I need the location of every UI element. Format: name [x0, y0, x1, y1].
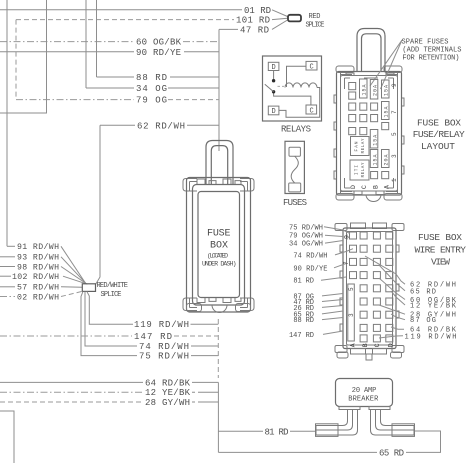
wire 75 RD/WH right [191, 355, 218, 357]
wire corner x46 [0, 0, 47, 113]
layout bottom foot left [336, 178, 354, 200]
wire 65 RD exit [379, 265, 405, 291]
fuse D1 [349, 83, 356, 90]
entry relay slot tall rect [348, 284, 355, 341]
svg-text:D: D [387, 343, 394, 347]
svg-text:1: 1 [391, 178, 398, 182]
wire 60 OG/BK exit [379, 278, 405, 300]
layout box tab top-left [336, 66, 354, 89]
svg-text:12 YE/BK: 12 YE/BK [145, 388, 191, 398]
wire 93 RD/WH to splice [61, 257, 86, 284]
wire 12 YE/BK right [192, 391, 218, 393]
wire 93 RD/WH stub [0, 256, 15, 258]
svg-text:90 RD/YE: 90 RD/YE [293, 265, 327, 273]
wire 34 OG vertical [85, 0, 87, 88]
svg-text:20A: 20A [384, 155, 390, 166]
fuse box U1 bottom edge details [197, 298, 241, 303]
wire 12 YE/BK left [0, 391, 143, 393]
wire 28 GY/WH right [192, 401, 218, 403]
svg-text:FUSES: FUSES [283, 198, 307, 208]
fuse box U1 label plate [198, 192, 240, 298]
fuse box U1 tab bottom-right [240, 298, 254, 311]
entry box notch right 1 [396, 245, 399, 252]
svg-text:15A: 15A [372, 135, 378, 146]
svg-text:FUSE/RELAY: FUSE/RELAY [413, 129, 465, 140]
wire 79 OG/WH entry [325, 235, 343, 236]
relay ITI [350, 160, 369, 180]
wire relay D to switch [273, 71, 275, 80]
wire 81 RD right [290, 430, 316, 432]
svg-text:15A: 15A [384, 85, 390, 96]
fuse box U1 handle outer [206, 141, 233, 185]
wire 26 RD entry [322, 306, 343, 308]
fuse box U1 bottom bump [212, 305, 227, 313]
wire 62 RD/WH vertical to splice [96, 125, 100, 284]
wire 81 RD left [218, 430, 263, 432]
svg-text:UNDER DASH): UNDER DASH) [202, 261, 237, 268]
svg-text:147 RD: 147 RD [134, 332, 172, 342]
svg-text:C: C [310, 108, 314, 116]
svg-text:57 RD/WH: 57 RD/WH [17, 283, 59, 293]
relay switch blade [265, 84, 274, 92]
entry grid [350, 232, 393, 342]
fuse D4 [349, 115, 356, 122]
entry box tab top-left [335, 224, 350, 241]
wire 90 RD/YE right [184, 51, 219, 53]
svg-text:79 OG: 79 OG [136, 96, 167, 106]
breaker right leg inner [381, 410, 415, 436]
svg-text:B: B [362, 343, 369, 347]
fuse 15A col A [382, 80, 390, 98]
wire 81 RD entry [321, 277, 346, 280]
fuse 15A col C [360, 79, 368, 98]
wire vertical x7 [6, 0, 8, 246]
fuse element s-curve [291, 156, 298, 183]
svg-text:98 RD/WH: 98 RD/WH [17, 262, 59, 272]
wire 87 OG exit [391, 314, 405, 320]
wire 90 RD/YE entry [334, 264, 346, 268]
wire 101 RD [16, 19, 234, 21]
svg-text:B: B [372, 185, 379, 189]
svg-text:SPARE FUSES: SPARE FUSES [402, 39, 449, 47]
svg-text:88 RD: 88 RD [136, 73, 167, 83]
entry box tab bottom-right [392, 346, 404, 353]
wire bundle dashed vertical [217, 319, 219, 378]
svg-text:74 RD/WH: 74 RD/WH [293, 252, 327, 260]
layout bottom foot right [384, 178, 402, 200]
svg-text:FUSE BOX: FUSE BOX [418, 232, 462, 243]
entry box foot bottom-left [337, 352, 348, 358]
wire bus to fuse box handle [218, 29, 220, 151]
fuse B7 [371, 172, 378, 179]
breaker left receptacle [316, 424, 339, 437]
entry box tab bottom-left [335, 346, 347, 353]
fuse terminal bottom [289, 183, 301, 192]
svg-text:75 RD/WH: 75 RD/WH [289, 224, 323, 232]
layout box notch left 4 [334, 171, 337, 179]
entry box bump top 1 [351, 223, 366, 229]
fuse box U1 bottom foot right [236, 304, 251, 312]
wire 65 RD to breaker [406, 431, 441, 452]
entry box notch left 2 [340, 271, 343, 278]
spare fuse pointer line 1 [370, 40, 402, 86]
wire 64 RD/BK exit [391, 327, 404, 329]
breaker left leg mid [316, 410, 353, 431]
wire 119 RD/WH right [191, 323, 219, 325]
wire 147 RD right [174, 335, 218, 337]
fuse D2 [349, 92, 356, 99]
svg-text:01 RD: 01 RD [244, 6, 271, 16]
entry box notch left 1 [340, 245, 343, 252]
wire 28 GY/WH exit [379, 305, 405, 314]
breaker left leg outer [316, 410, 358, 436]
wire 62 RD/WH exit [365, 256, 405, 284]
svg-text:BREAKER: BREAKER [348, 395, 379, 403]
svg-text:D: D [272, 108, 276, 116]
fuse C3 [360, 103, 367, 110]
wire 147 RD left [0, 335, 132, 337]
layout bottom bump [366, 195, 381, 202]
svg-text:3: 3 [391, 154, 398, 158]
layout box body outer [337, 72, 402, 196]
svg-text:74 RD/WH: 74 RD/WH [139, 342, 189, 352]
fuse box U1 body outer [187, 178, 251, 313]
wire splice to 75 RD/WH [81, 291, 137, 355]
wire 102 RD/WH to splice [63, 276, 87, 284]
entry box notch right 2 [396, 284, 399, 291]
relay coil [285, 83, 317, 88]
relay pin D top-left [268, 62, 279, 72]
svg-text:93 RD/WH: 93 RD/WH [17, 253, 59, 263]
wire 98 RD/WH stub [0, 266, 15, 268]
svg-text:90 RD/YE: 90 RD/YE [136, 48, 181, 58]
svg-text:20A: 20A [372, 85, 378, 96]
svg-text:FUSE BOX: FUSE BOX [417, 117, 461, 128]
fuse D5 [349, 128, 356, 135]
svg-text:81 RD: 81 RD [293, 278, 314, 286]
wire 74 RD/WH entry [335, 249, 353, 255]
layout box tab top-right [384, 66, 402, 89]
fuse A7 [382, 172, 389, 179]
entry box bottom center tab [366, 354, 372, 360]
svg-text:02 RD/WH: 02 RD/WH [17, 292, 59, 302]
svg-text:5: 5 [391, 132, 398, 136]
entry box bump bottom 2 [373, 349, 387, 355]
wire 47 RD entry [322, 300, 343, 302]
layout box body inner [341, 76, 398, 192]
svg-text:7: 7 [391, 110, 398, 114]
wire 02 RD/WH to splice [61, 291, 82, 296]
wire 88 RD right [170, 76, 219, 78]
svg-text:D: D [350, 185, 357, 189]
wire D bottom to coil right [279, 88, 320, 118]
svg-text:65 RD: 65 RD [379, 448, 404, 458]
wire 47 RD to splice [272, 20, 288, 29]
wire 65 RD bottom [218, 451, 377, 453]
svg-text:3: 3 [348, 313, 355, 317]
wire 87 OG entry [322, 294, 343, 296]
fuse 15A col A row3 [382, 102, 390, 120]
wire 88 RD vertical [96, 0, 98, 77]
relay pin D bottom-left [268, 106, 279, 116]
layout box handle inner [362, 34, 382, 72]
relay switch contact dot lower [272, 90, 275, 93]
breaker right leg outer [371, 410, 415, 436]
wire 34 OG left [86, 87, 134, 89]
wire 57 RD/WH to splice [61, 286, 82, 289]
svg-text:WIRE ENTRY: WIRE ENTRY [415, 244, 467, 255]
wire 60 OG/BK right [183, 41, 219, 43]
fuse 15A col B row6 [370, 150, 378, 168]
wire 101 RD to splice [272, 18, 288, 19]
fuse C5 [360, 128, 367, 135]
svg-text:(LOCATED: (LOCATED [207, 253, 228, 260]
svg-text:C: C [361, 185, 368, 189]
fuse box U1 top edge details [197, 179, 241, 184]
relay box [263, 56, 322, 121]
svg-text:28 GY/WH: 28 GY/WH [145, 398, 190, 408]
wire 62 RD/WH left [100, 124, 135, 126]
svg-text:75 RD/WH: 75 RD/WH [139, 352, 189, 362]
svg-text:119 RD/WH: 119 RD/WH [405, 333, 457, 341]
svg-text:9: 9 [391, 83, 398, 87]
svg-text:C: C [310, 64, 314, 72]
fuse C4 [360, 115, 367, 122]
fuse box U1 tab top-left [183, 179, 197, 192]
entry box bump top 2 [373, 223, 387, 229]
svg-text:VIEW: VIEW [431, 257, 450, 268]
svg-text:34 OG: 34 OG [136, 84, 167, 94]
svg-text:119 RD/WH: 119 RD/WH [134, 320, 189, 330]
layout box notch right 2 [401, 136, 404, 144]
fuse A5 [382, 123, 389, 130]
wire 91 RD/WH to splice [61, 246, 86, 283]
layout box notch left 3 [334, 149, 337, 157]
fuse D3 [349, 103, 356, 110]
fuse 15A col B row5 [370, 130, 378, 149]
entry box bump bottom 1 [351, 349, 366, 355]
spare fuse pointer line 2 [381, 40, 403, 89]
wire bus bottom vertical [217, 382, 219, 452]
svg-text:C: C [374, 343, 381, 347]
svg-text:147 RD: 147 RD [289, 332, 314, 340]
wire 79 OG left [16, 99, 134, 101]
wire 34 OG right [168, 87, 219, 89]
layout box notch left 2 [334, 122, 337, 130]
wire coil to C top [287, 66, 307, 87]
splice red [288, 15, 301, 22]
splice red/white [82, 284, 95, 292]
wire 119 RD/WH exit [379, 336, 403, 338]
entry box notch right 3 [396, 311, 399, 318]
fuse box U1 handle inner [211, 146, 227, 184]
entry box notch left 4 [340, 324, 343, 331]
layout box notch left 1 [334, 95, 337, 103]
wire 34 OG/WH entry [325, 241, 343, 244]
svg-text:15A: 15A [384, 107, 390, 118]
fuse B3 [371, 103, 378, 110]
wire splice to 119 RD/WH [87, 291, 133, 324]
fuse box U1 body mid [193, 185, 245, 306]
svg-text:102 RD/WH: 102 RD/WH [12, 272, 59, 282]
svg-text:RED/WHITE: RED/WHITE [97, 282, 129, 290]
fuse 20A col B [370, 80, 378, 100]
relay switch link dashed [278, 85, 285, 87]
wire vertical dashed x16 [15, 20, 17, 100]
svg-text:RELAYS: RELAYS [281, 124, 311, 134]
svg-text:FUSE: FUSE [207, 229, 231, 240]
wire 74 RD/WH right [191, 345, 218, 347]
svg-text:SPLICE: SPLICE [306, 21, 325, 29]
wire 98 RD/WH to splice [61, 267, 87, 285]
wire splice to 74 RD/WH [85, 291, 137, 346]
relay switch contact dot upper [272, 79, 275, 82]
wire 57 RD/WH stub [0, 286, 15, 288]
svg-text:91 RD/WH: 91 RD/WH [17, 242, 59, 252]
layout box top edge details [346, 73, 394, 78]
fuse terminal top [289, 147, 300, 156]
breaker base lip right [369, 407, 390, 410]
relay FAN [351, 137, 370, 156]
svg-text:15A: 15A [362, 85, 368, 96]
svg-text:ITI: ITI [355, 165, 360, 175]
wire bottom left corner [0, 411, 14, 463]
wire 28 GY/WH left [0, 401, 143, 403]
wire 90 RD/YE left [0, 51, 134, 53]
breaker right receptacle [392, 424, 415, 437]
svg-text:9: 9 [344, 235, 351, 239]
svg-text:101 RD: 101 RD [236, 16, 270, 26]
entry box foot bottom-right [391, 352, 402, 358]
wire 91 RD/WH stub [7, 245, 15, 247]
breaker left leg inner [316, 410, 348, 436]
fuse 20A col A row6 [382, 150, 390, 168]
fuse symbol body [285, 141, 304, 193]
wire 64 RD/BK left [0, 381, 143, 383]
svg-text:FOR RETENTION): FOR RETENTION) [402, 54, 459, 62]
svg-text:65 RD: 65 RD [410, 288, 436, 296]
wire 88 RD entry [322, 318, 343, 320]
svg-text:LAYOUT: LAYOUT [421, 141, 455, 152]
relay pin C bottom-right [306, 105, 317, 116]
svg-text:34 OG/WH: 34 OG/WH [289, 241, 323, 249]
wire 64 RD/BK right [192, 381, 218, 383]
fuse box U1 tab bottom-left [183, 298, 197, 311]
wire 01 RD [0, 9, 242, 11]
svg-text:79 OG/WH: 79 OG/WH [289, 233, 323, 241]
svg-text:20 AMP: 20 AMP [352, 387, 377, 395]
layout box handle outer [357, 29, 385, 72]
entry box body outer [343, 228, 396, 349]
fuse B4 [371, 115, 378, 122]
wire 79 OG right [168, 99, 219, 101]
wire 88 RD left [97, 76, 135, 78]
svg-text:RELAY: RELAY [361, 162, 366, 177]
fuse box U1 tab top-right [240, 179, 254, 192]
entry box tab top-right [389, 224, 404, 232]
entry box body inner [347, 232, 393, 346]
wire 60 OG/BK left [0, 41, 134, 43]
svg-text:BOX: BOX [210, 241, 228, 252]
wire 12 YE/BK exit [391, 291, 405, 305]
svg-text:87 OG: 87 OG [410, 317, 436, 325]
relay pin C top-right [306, 61, 317, 71]
wire 147 RD entry [323, 331, 343, 334]
svg-text:FAN: FAN [355, 141, 360, 151]
svg-text:88 RD: 88 RD [293, 317, 314, 325]
svg-text:81 RD: 81 RD [265, 427, 289, 437]
wire 47 RD [219, 28, 238, 30]
breaker body [336, 379, 393, 407]
svg-text:12 YE/BK: 12 YE/BK [410, 303, 457, 311]
breaker base lip left [339, 407, 360, 410]
wire 01 RD to splice [272, 10, 288, 17]
wire 62 RD/WH right [187, 124, 219, 126]
svg-text:15A: 15A [372, 155, 378, 166]
layout box notch right 1 [401, 98, 404, 106]
layout box notch right 3 [401, 166, 404, 174]
svg-text:(ADD TERMINALS: (ADD TERMINALS [402, 46, 461, 54]
svg-text:SPLICE: SPLICE [101, 291, 122, 299]
breaker right leg mid [376, 410, 415, 431]
wire 75 RD/WH entry [324, 227, 350, 234]
fuse box U1 bottom foot left [187, 304, 202, 312]
svg-text:62 RD/WH: 62 RD/WH [137, 121, 185, 131]
svg-text:A: A [350, 343, 357, 347]
wire switch to C bottom [274, 94, 311, 106]
layout bottom edge details [354, 191, 384, 195]
svg-text:64 RD/BK: 64 RD/BK [145, 378, 191, 388]
wire 102 RD/WH stub [0, 275, 11, 277]
wire 02 RD/WH stub [0, 296, 15, 298]
wire 65 RD entry [322, 311, 343, 314]
entry box notch left 3 [340, 298, 343, 305]
svg-text:RED: RED [309, 13, 321, 21]
svg-text:47 RD: 47 RD [240, 25, 269, 35]
svg-text:RELAY: RELAY [361, 138, 366, 153]
svg-text:5: 5 [348, 287, 355, 291]
svg-text:60 OG/BK: 60 OG/BK [136, 38, 182, 48]
